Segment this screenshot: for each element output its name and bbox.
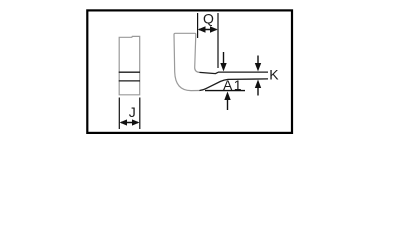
lead cross-section left edge + heel curve (174, 35, 200, 91)
dimension Q left extension line (197, 13, 199, 38)
dimension A1 upper arrow (points down to foot top) (223, 52, 225, 64)
dimension J right arrowhead (132, 119, 140, 125)
svg-text:A1: A1 (223, 77, 243, 93)
dimension J arrow line (121, 122, 138, 124)
dimension J left arrowhead (120, 119, 127, 125)
lead foot top surface (tinned, dark) (200, 72, 269, 74)
dimension Q left arrowhead (198, 26, 206, 32)
lead foot bottom surface (tinned, dark) (200, 79, 269, 91)
svg-text:J: J (129, 104, 136, 120)
lead cross-section body outline: top + right inner edge + inner bend (174, 33, 200, 72)
seating plane reference line (205, 90, 245, 92)
dimension J left extension line (118, 98, 120, 130)
border frame (87, 10, 292, 132)
dimension K lower arrow (points up to foot bottom) (257, 88, 259, 96)
dimension Q right extension line (217, 13, 219, 68)
dimension J right extension line (139, 98, 141, 130)
dimension A1 lower arrow (points up to seating plane) (227, 99, 229, 110)
solder band bottom line (119, 80, 140, 82)
dimension K upper arrow (points down to foot top) (257, 56, 259, 64)
dimension Q right arrowhead (210, 26, 218, 32)
svg-text:K: K (269, 66, 279, 82)
solder band top line (119, 71, 140, 73)
svg-text:Q: Q (203, 11, 214, 27)
dimension Q arrow line (199, 29, 217, 31)
lead side-view body (left rectangle) (119, 36, 140, 94)
